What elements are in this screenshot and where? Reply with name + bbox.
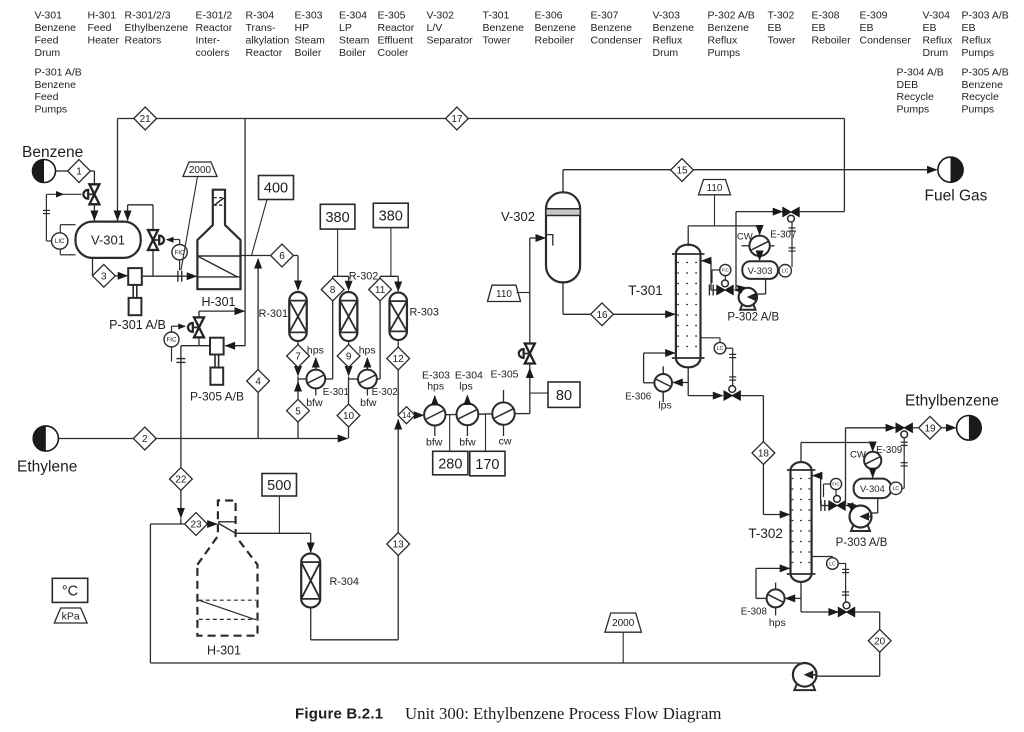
svg-text:HP: HP (295, 22, 310, 34)
wire E-302 hps (366, 358, 368, 370)
instrument LC (714, 342, 726, 354)
svg-text:110: 110 (496, 289, 512, 300)
exchanger E-305 (492, 402, 514, 424)
svg-text:bfw: bfw (459, 437, 476, 449)
svg-text:Reflux: Reflux (653, 34, 684, 46)
svg-text:Reactor: Reactor (196, 22, 233, 34)
svg-text:bfw: bfw (360, 397, 377, 409)
svg-text:15: 15 (676, 166, 688, 177)
wire E-307 cw right stub (770, 245, 775, 247)
node stream 19 (919, 416, 942, 439)
leader 2000 flag (181, 177, 198, 271)
svg-text:H-301: H-301 (88, 10, 117, 22)
svg-text:R-304: R-304 (246, 10, 275, 22)
svg-text:T-301: T-301 (483, 10, 510, 22)
wire T-302 LC tap (812, 556, 833, 558)
svg-text:FIC: FIC (167, 337, 177, 344)
svg-text:Benzene: Benzene (962, 79, 1004, 91)
svg-text:3: 3 (101, 271, 107, 282)
svg-text:7: 7 (295, 352, 301, 363)
svg-text:Pumps: Pumps (35, 104, 68, 116)
vessel V-301 benzene feed drum (76, 222, 141, 258)
leader 380 left (337, 229, 339, 276)
svg-text:Ethylbenzene: Ethylbenzene (125, 22, 189, 34)
wire LIC signal (46, 240, 51, 242)
svg-text:Reboiler: Reboiler (535, 34, 575, 46)
node stream 16 (591, 303, 614, 326)
svg-text:Pumps: Pumps (962, 104, 995, 116)
svg-text:Inter-: Inter- (196, 34, 221, 46)
wire benzene recycle riser (P-302 to header) (735, 212, 737, 290)
wire LC signal V-304 (901, 487, 904, 489)
exchanger E-304 (457, 403, 479, 425)
temperature flag 280 (433, 451, 468, 475)
svg-text:CW: CW (850, 450, 866, 461)
furnace coil (chimney) (218, 521, 236, 523)
wire H-301 outlet (stream 6) (241, 255, 299, 257)
wire E-302 outlet (stream 11) (377, 378, 380, 380)
node stream 15 (671, 159, 694, 182)
wire E-303 to E-304 (446, 414, 457, 416)
leader 500 box (278, 496, 280, 533)
svg-text:P-305 A/B: P-305 A/B (190, 390, 244, 404)
instrument FIC (830, 478, 841, 489)
wire to E-303 (stream 14) (398, 414, 414, 416)
svg-text:FIC: FIC (832, 482, 840, 487)
wire E-306 return (644, 382, 655, 384)
wire P-302 discharge (735, 289, 739, 291)
wire to E-308 (785, 597, 801, 599)
instrument FIC (720, 264, 731, 275)
svg-text:V-303: V-303 (748, 266, 773, 277)
svg-text:9: 9 (346, 352, 352, 363)
temperature flag 170 (470, 451, 505, 476)
svg-text:Fuel Gas: Fuel Gas (925, 188, 988, 205)
pressure flag 110 (T-301) (699, 180, 731, 195)
svg-text:Steam: Steam (295, 34, 326, 46)
valve V-302 feed (525, 344, 535, 354)
svg-text:cw: cw (499, 436, 512, 448)
wire T-302 overhead (800, 443, 802, 463)
temperature flag 400 (259, 176, 294, 200)
svg-text:22: 22 (175, 475, 187, 486)
leader 2000 flag bottom (622, 632, 624, 663)
node stream 5 (287, 399, 310, 422)
temperature flag 380 (320, 204, 355, 229)
svg-text:Benzene: Benzene (591, 22, 633, 34)
svg-text:Separator: Separator (427, 34, 474, 46)
svg-text:21: 21 (140, 114, 152, 125)
node stream 3 (92, 264, 115, 287)
wire T-301 LC tap (701, 337, 721, 339)
svg-text:Ethylbenzene: Ethylbenzene (905, 393, 999, 410)
pressure flag 2000 (bottom) (605, 613, 642, 632)
svg-text:P-302 A/B: P-302 A/B (708, 10, 755, 22)
wire EB product riser (stream 19) (845, 428, 847, 506)
node stream 1 (68, 160, 91, 183)
reactor R-302 (340, 292, 358, 341)
wire V-301 bottoms (stream 3) (92, 258, 94, 276)
svg-text:12: 12 (393, 354, 405, 365)
drum V-303 benzene reflux drum (742, 261, 778, 279)
svg-text:coolers: coolers (196, 47, 230, 59)
svg-text:400: 400 (264, 181, 288, 197)
svg-text:Unit 300: Ethylbenzene Process: Unit 300: Ethylbenzene Process Flow Diag… (405, 704, 721, 723)
pressure flag 110 (V-302) (488, 285, 521, 301)
wire T-302 bottoms to valve (stream 20) (801, 611, 838, 613)
svg-text:14: 14 (402, 411, 411, 420)
svg-text:Pumps: Pumps (708, 47, 741, 59)
wire to E-306 (673, 382, 688, 384)
wire FIC signal to orifice (171, 347, 173, 362)
svg-text:Boiler: Boiler (339, 47, 366, 59)
wire P-305 spillback (198, 338, 200, 345)
svg-text:CW: CW (737, 232, 753, 243)
reactor R-301 (289, 292, 307, 341)
node stream 21 (134, 107, 157, 130)
wire reflux (711, 289, 717, 291)
svg-text:170: 170 (475, 457, 499, 473)
instrument LIC (52, 233, 68, 249)
V-302 inlet diverter (547, 235, 553, 246)
svg-text:P-303 A/B: P-303 A/B (836, 537, 888, 549)
svg-text:Boiler: Boiler (295, 47, 322, 59)
wire R-301 effluent (stream 7) (297, 341, 299, 375)
wire ethylene split stream 10 (348, 379, 350, 439)
furnace H-301 (dashed, second service) (197, 501, 257, 636)
wire FIC signal (835, 490, 837, 496)
leader 400 box (252, 200, 268, 256)
furnace interior diagonal (199, 600, 255, 619)
wire R-302 effluent (stream 9) (348, 341, 350, 375)
furnace coil (197, 255, 240, 257)
node stream 4 (247, 370, 270, 393)
valve FIC spillback (P-305) (194, 317, 204, 327)
pressure flag 2000 (183, 162, 217, 177)
legend temperature units (52, 578, 87, 602)
wire E-301 bfw (315, 388, 317, 395)
svg-text:Pumps: Pumps (897, 104, 930, 116)
wire recycle down to V-301 (117, 119, 119, 221)
wire ethylene feed (stream 2) (58, 438, 133, 440)
svg-text:Ethylene: Ethylene (17, 459, 77, 476)
wire P-301 discharge to H-301 (142, 275, 197, 277)
valve EB product (896, 423, 904, 432)
T-301 trays (677, 262, 700, 264)
svg-text:P-305 A/B: P-305 A/B (962, 66, 1009, 78)
wire FIC to orifice (824, 483, 831, 485)
temperature flag 500 (262, 474, 297, 497)
svg-text:E-307: E-307 (591, 10, 619, 22)
instrument FIC (164, 332, 179, 347)
svg-text:LP: LP (339, 22, 352, 34)
svg-text:E-304: E-304 (339, 10, 367, 22)
leader 170 box (485, 414, 487, 451)
valve T-302 bottoms LC (838, 607, 846, 616)
svg-text:110: 110 (707, 183, 723, 194)
svg-text:R-302: R-302 (349, 271, 378, 283)
svg-text:E-301: E-301 (323, 387, 349, 398)
wire to R-304 (236, 532, 311, 534)
svg-text:6: 6 (279, 251, 285, 262)
node stream 9 (337, 345, 360, 368)
svg-text:Condenser: Condenser (591, 34, 643, 46)
svg-text:Recycle: Recycle (962, 91, 1000, 103)
wire E-301 outlet (stream 8) (325, 378, 333, 380)
svg-text:kPa: kPa (62, 610, 80, 622)
leader 80 box (530, 392, 548, 394)
svg-text:23: 23 (190, 520, 202, 531)
wire E-304 lps (466, 396, 468, 404)
instrument LC (779, 265, 791, 277)
reactor R-304 (301, 553, 320, 607)
svg-text:380: 380 (379, 209, 403, 225)
svg-text:Benzene: Benzene (35, 79, 77, 91)
svg-text:E-308: E-308 (741, 607, 768, 618)
svg-text:P-301 A/B: P-301 A/B (109, 318, 166, 332)
svg-text:80: 80 (556, 388, 572, 404)
svg-text:V-301: V-301 (91, 233, 125, 248)
wire E-301 hps (315, 358, 317, 370)
svg-text:Feed: Feed (35, 34, 59, 46)
node stream 12 (387, 347, 410, 370)
svg-text:Tower: Tower (768, 34, 797, 46)
wire FIC to orifice (712, 269, 720, 271)
svg-text:alkylation: alkylation (246, 34, 290, 46)
node stream 2 (133, 427, 156, 450)
furnace H-301 (197, 190, 240, 290)
svg-text:V-303: V-303 (653, 10, 681, 22)
valve T-302 reflux FIC (829, 501, 837, 510)
svg-text:Feed: Feed (88, 22, 112, 34)
furnace damper (214, 197, 225, 199)
svg-text:LIC: LIC (55, 238, 65, 245)
svg-text:E-305: E-305 (490, 369, 518, 381)
svg-text:T-301: T-301 (628, 283, 663, 298)
svg-text:Reboiler: Reboiler (812, 34, 852, 46)
valve T-301 reflux FIC (717, 285, 725, 294)
wire V-302 bottoms (stream 16) (562, 282, 564, 314)
wire DEB recycle (P-304 discharge) (150, 662, 799, 664)
wire E-303 hps (434, 396, 436, 404)
exchanger E-301 (306, 370, 325, 389)
column T-302 EB tower (791, 462, 812, 582)
node stream 20 (868, 629, 891, 652)
wire R-303 effluent (stream 12) (397, 340, 399, 415)
pump P-302 A/B (740, 302, 755, 310)
wire fuel gas header (stream 15) (563, 169, 937, 171)
wire FIC signal to valve (179, 240, 181, 245)
wire LC signal (726, 347, 733, 349)
instrument FIC (172, 245, 187, 260)
svg-text:16: 16 (596, 310, 608, 321)
svg-text:19: 19 (924, 423, 936, 434)
svg-text:E-305: E-305 (378, 10, 406, 22)
svg-text:10: 10 (343, 411, 355, 422)
svg-text:Benzene: Benzene (708, 22, 750, 34)
svg-text:lps: lps (459, 381, 472, 393)
svg-text:DEB: DEB (897, 79, 919, 91)
wire FIC to valve signal (724, 276, 726, 280)
wire E-303 bfw (434, 426, 436, 437)
svg-text:Reators: Reators (125, 34, 162, 46)
wire E-307 cw left stub (742, 245, 750, 247)
svg-text:E-306: E-306 (535, 10, 563, 22)
svg-text:R-301: R-301 (259, 308, 288, 320)
svg-text:hps: hps (359, 345, 376, 357)
svg-text:L/V: L/V (427, 22, 443, 34)
svg-text:4: 4 (255, 377, 261, 388)
reboiler E-308 (767, 589, 785, 607)
svg-text:13: 13 (393, 540, 405, 551)
svg-text:Recycle: Recycle (897, 91, 935, 103)
wire (90, 170, 94, 172)
svg-text:E-309: E-309 (860, 10, 888, 22)
condenser E-309 (864, 452, 881, 469)
svg-text:Pumps: Pumps (962, 47, 995, 59)
column T-301 benzene tower (676, 245, 701, 368)
svg-text:18: 18 (758, 449, 770, 460)
svg-text:T-302: T-302 (768, 10, 795, 22)
wire benzene recycle drop to P-305 (244, 119, 246, 346)
svg-text:20: 20 (874, 636, 886, 647)
wire E-304 to E-305 (478, 413, 492, 415)
svg-text:E-308: E-308 (812, 10, 840, 22)
valve T-301 bottoms LC (724, 391, 732, 400)
wire E-305 cw supply (503, 425, 505, 436)
svg-text:E-303: E-303 (295, 10, 323, 22)
svg-text:2000: 2000 (612, 618, 635, 629)
svg-text:lps: lps (658, 400, 671, 412)
svg-text:Drum: Drum (923, 47, 949, 59)
svg-text:Benzene: Benzene (35, 22, 77, 34)
svg-text:P-301 A/B: P-301 A/B (35, 66, 82, 78)
wire T-301 bottoms (687, 367, 689, 396)
svg-text:Effluent: Effluent (378, 34, 413, 46)
wire P-305 discharge (181, 345, 210, 347)
svg-text:Benzene: Benzene (535, 22, 577, 34)
wire E-309 to V-304 (872, 469, 874, 478)
svg-text:2: 2 (142, 434, 148, 445)
svg-text:E-306: E-306 (625, 392, 652, 403)
wire FIC signal to orifice (179, 260, 181, 270)
pump P-301 A/B (128, 268, 142, 285)
svg-text:2000: 2000 (189, 165, 212, 176)
svg-text:LC: LC (782, 269, 789, 275)
svg-text:EB: EB (768, 22, 782, 34)
exchanger E-302 (358, 370, 377, 389)
wire benzene feed (56, 170, 68, 172)
svg-text:V-301: V-301 (35, 10, 63, 22)
svg-text:Reflux: Reflux (962, 34, 993, 46)
svg-text:Drum: Drum (35, 47, 61, 59)
svg-text:280: 280 (438, 456, 462, 472)
svg-text:P-304 A/B: P-304 A/B (897, 66, 944, 78)
svg-text:Reflux: Reflux (708, 34, 739, 46)
wire E-305 outlet (515, 413, 530, 415)
svg-text:H-301: H-301 (201, 295, 235, 309)
svg-text:Heater: Heater (88, 34, 120, 46)
node stream 8 (321, 278, 344, 301)
condenser E-307 (749, 236, 769, 256)
svg-text:Figure B.2.1: Figure B.2.1 (295, 706, 383, 723)
wire to V-302 (vertical riser) (529, 238, 531, 343)
leader 280 box (449, 415, 451, 452)
svg-text:H-301: H-301 (207, 644, 241, 658)
wire V-302 overhead to fuel gas (562, 170, 564, 193)
svg-text:LC: LC (893, 486, 900, 492)
reactor R-303 (389, 293, 407, 341)
wire P-301 spillback (152, 251, 154, 276)
svg-text:Drum: Drum (653, 47, 679, 59)
leader 110 flag T-301 (714, 195, 716, 226)
wire stream 22 down (180, 439, 182, 518)
node stream 7 (287, 345, 310, 368)
svg-text:T-302: T-302 (748, 526, 783, 541)
svg-text:V-302: V-302 (427, 10, 455, 22)
wire V-303 to P-302 (765, 279, 767, 294)
leader 380 right (390, 228, 392, 277)
svg-text:V-302: V-302 (501, 209, 535, 224)
valve benzene recycle (783, 207, 791, 216)
node stream 10 (337, 404, 360, 427)
svg-text:Reactor: Reactor (246, 47, 283, 59)
svg-text:380: 380 (325, 210, 349, 226)
svg-text:8: 8 (330, 285, 336, 296)
svg-text:bfw: bfw (426, 437, 443, 449)
svg-text:5: 5 (295, 406, 301, 417)
node stream 13 (387, 533, 410, 556)
svg-text:V-304: V-304 (923, 10, 951, 22)
svg-text:Benzene: Benzene (22, 144, 83, 161)
wire T-302 bottoms (800, 583, 802, 612)
vessel V-302 L/V separator (546, 192, 580, 282)
svg-text:hps: hps (769, 617, 786, 629)
drum V-304 EB reflux drum (854, 479, 892, 499)
wire E-305 cw return (503, 390, 505, 402)
wire FIC signal to valve (171, 326, 173, 332)
svg-text:Reactor: Reactor (378, 22, 415, 34)
wire to E-302 (349, 378, 358, 380)
wire ethylene split stream 4 (257, 259, 259, 439)
wire T-301 bottoms to valve (stream 18) (688, 395, 722, 397)
svg-text:EB: EB (923, 22, 937, 34)
svg-text:17: 17 (451, 114, 463, 125)
svg-text:Benzene: Benzene (483, 22, 525, 34)
svg-text:hps: hps (307, 345, 324, 357)
wire LC signal (838, 563, 845, 565)
node stream 23 (185, 513, 208, 536)
wire E-304 bfw (466, 425, 468, 436)
wire LC signal V-303 (791, 222, 793, 267)
svg-text:E-301/2: E-301/2 (196, 10, 233, 22)
exchanger E-303 (424, 404, 445, 425)
svg-text:EB: EB (962, 22, 976, 34)
wire P-303 discharge (846, 505, 849, 507)
pump P-304 A/B (794, 683, 815, 691)
wire ethylene split stream 5 (297, 382, 299, 439)
pump P-305 A/B (210, 338, 224, 355)
svg-text:bfw: bfw (306, 397, 323, 409)
reboiler E-306 (654, 374, 672, 392)
wire LIC top tap (60, 224, 75, 226)
output Fuel Gas (938, 157, 963, 182)
wire reflux (821, 505, 829, 507)
T-302 trays (792, 478, 812, 480)
svg-text:V-304: V-304 (860, 484, 885, 495)
svg-text:R-301/2/3: R-301/2/3 (125, 10, 171, 22)
temperature flag 380 (373, 203, 408, 227)
